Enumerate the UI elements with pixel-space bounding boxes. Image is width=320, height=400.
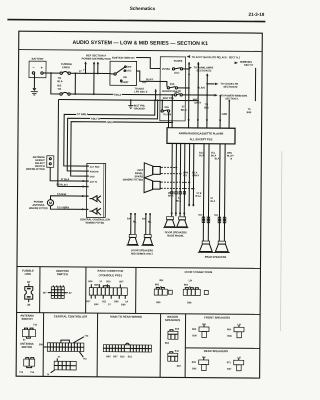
svg-text:JB: JB — [27, 304, 30, 307]
legend: central controller strip 2 — [47, 357, 77, 377]
svg-text:T/5 BLA/Y: T/5 BLA/Y — [56, 184, 68, 187]
svg-text:B/L: B/L — [148, 222, 152, 224]
speaker door mid LH — [141, 235, 153, 246]
wire arrow motor lower — [82, 208, 85, 210]
svg-text:30A: 30A — [170, 83, 175, 86]
title separator line — [19, 50, 262, 52]
svg-text:IGNITION SWITCH: IGNITION SWITCH — [112, 56, 135, 60]
legend: front LH connector — [234, 325, 244, 338]
svg-text:M: M — [49, 201, 52, 205]
svg-text:ILLUM: ILLUM — [163, 113, 171, 116]
svg-text:B15: B15 — [192, 362, 197, 364]
to parklamps arrow — [189, 66, 193, 69]
svg-text:Schematics: Schematics — [130, 6, 156, 11]
legend: fusible link symbol — [25, 284, 33, 303]
svg-text:57: 57 — [108, 304, 111, 306]
svg-text:MOTOR: MOTOR — [22, 345, 32, 349]
svg-text:716: 716 — [30, 372, 35, 374]
svg-text:OFF: OFF — [127, 66, 132, 69]
svg-text:MAIN TO REAR WIRING: MAIN TO REAR WIRING — [110, 315, 142, 319]
connector ticks door wires — [171, 204, 195, 215]
svg-text:B: B — [231, 158, 233, 160]
wire risers into radio — [187, 62, 230, 128]
legend: main to rear connector strip — [103, 343, 151, 352]
schematic border frame — [16, 31, 262, 378]
svg-text:BLA/Y: BLA/Y — [146, 78, 154, 81]
svg-text:BLA: BLA — [57, 80, 62, 83]
wire riser w/ arrow 3 — [93, 61, 96, 95]
svg-text:B10: B10 — [175, 329, 180, 331]
junction dots dashed — [175, 166, 195, 189]
svg-text:B08: B08 — [114, 301, 119, 303]
wire motor lower — [50, 206, 86, 209]
svg-text:DOOR CONNECTIONS: DOOR CONNECTIONS — [185, 270, 213, 274]
svg-text:AUDIO SYSTEM — LOW & MID SERIE: AUDIO SYSTEM — LOW & MID SERIES — SECTIO… — [72, 40, 208, 47]
svg-text:57: 57 — [211, 198, 214, 200]
wire switch to controller — [50, 167, 87, 181]
ignition switch — [110, 61, 137, 85]
wire nested loop 4 — [71, 122, 172, 177]
svg-text:ACC: ACC — [126, 69, 132, 72]
svg-text:TO ACCY BACKLITE RELAYS - SECT: TO ACCY BACKLITE RELAYS - SECT H.J — [192, 56, 241, 59]
svg-text:LPS SEC E: LPS SEC E — [134, 91, 147, 94]
legend: rear LH connector — [234, 358, 244, 371]
svg-text:MID SERIES ONLY: MID SERIES ONLY — [131, 253, 153, 256]
svg-text:74: 74 — [47, 373, 50, 376]
svg-text:FRONT SPEAKERS: FRONT SPEAKERS — [204, 315, 230, 319]
to cigar ltr arrow — [215, 83, 219, 86]
svg-text:B10: B10 — [198, 215, 203, 217]
svg-text:B11: B11 — [175, 351, 180, 353]
svg-text:B07: B07 — [113, 356, 118, 358]
svg-text:B05: B05 — [192, 329, 197, 331]
svg-text:B11: B11 — [214, 215, 219, 217]
svg-text:ON: ON — [123, 76, 127, 79]
legend: central controller 743 leader top — [73, 334, 89, 342]
svg-text:B06: B06 — [192, 368, 197, 370]
inst panel speakers label — [123, 169, 144, 182]
svg-text:YEL: YEL — [211, 153, 216, 155]
svg-text:BASE MODEL: BASE MODEL — [167, 235, 184, 238]
svg-text:SECTION M: SECTION M — [223, 86, 237, 89]
svg-text:T/5 B/W: T/5 B/W — [57, 193, 67, 196]
svg-text:B04: B04 — [165, 342, 170, 345]
svg-text:ALL EXCEPT PSS: ALL EXCEPT PSS — [190, 137, 213, 141]
svg-text:743: 743 — [83, 358, 88, 361]
svg-text:B/LG: B/LG — [181, 109, 187, 112]
svg-text:B/L: B/L — [133, 221, 137, 223]
svg-text:LINKS: LINKS — [62, 65, 70, 69]
svg-text:RH: RH — [159, 278, 163, 282]
svg-text:B04: B04 — [184, 284, 189, 287]
svg-text:GROUND: GROUND — [134, 107, 145, 110]
wire ign to fusebox top — [136, 58, 160, 69]
ground (battery) — [31, 74, 38, 95]
svg-text:T/5: T/5 — [57, 88, 61, 91]
wire risers backlite — [183, 62, 200, 70]
legend: radio connector body — [89, 284, 127, 299]
svg-text:REAR SPEAKERS: REAR SPEAKERS — [204, 349, 228, 353]
transistor Q2 — [92, 208, 97, 214]
svg-text:B09: B09 — [121, 304, 126, 306]
legend: radio connector pin labels top — [88, 280, 124, 287]
legend: antenna switch connector — [22, 328, 35, 338]
svg-text:B5B: B5B — [247, 112, 252, 114]
svg-text:SECT H: SECT H — [244, 64, 253, 67]
svg-text:B/LA: B/LA — [211, 154, 217, 157]
svg-text:B04: B04 — [227, 328, 232, 331]
svg-text:B09: B09 — [192, 335, 197, 337]
svg-text:T/BLY B: T/BLY B — [91, 118, 101, 121]
wire battery+ to fusible link — [43, 72, 59, 74]
wire motor upper — [50, 196, 86, 200]
legend: main to rear pin labels — [106, 356, 132, 358]
speaker inst panel LH — [144, 178, 161, 193]
svg-text:B71: B71 — [227, 362, 232, 364]
svg-text:Y: Y — [83, 70, 85, 72]
svg-text:R/DOOR: R/DOOR — [90, 171, 99, 173]
svg-text:WHERE FITTED: WHERE FITTED — [85, 222, 104, 225]
wire right drop — [254, 68, 256, 101]
wire arrow motor upper — [82, 195, 85, 197]
legend: central controller 743 leader bottom — [79, 352, 87, 361]
svg-text:B17: B17 — [86, 301, 91, 303]
svg-text:−: − — [32, 65, 35, 70]
svg-text:WHERE FITTED: WHERE FITTED — [29, 207, 48, 210]
battery — [29, 61, 46, 78]
svg-text:BLA: BLA — [176, 200, 181, 203]
svg-text:REAR SPEAKERS: REAR SPEAKERS — [205, 256, 227, 259]
svg-text:T/5 V/BRN: T/5 V/BRN — [57, 206, 69, 209]
svg-text:B/A: B/A — [142, 218, 146, 221]
svg-text:GRN/Y: GRN/Y — [192, 175, 200, 177]
svg-text:SWITCH: SWITCH — [22, 317, 33, 321]
to accy backlite arrow — [187, 55, 191, 58]
wire label T/BLA — [113, 93, 122, 96]
svg-text:YEL: YEL — [183, 175, 188, 177]
svg-text:BLU: BLU — [199, 152, 204, 154]
wires below radio — [171, 143, 225, 241]
svg-text:B10: B10 — [106, 281, 111, 283]
svg-text:57: 57 — [178, 198, 181, 200]
svg-text:BLA: BLA — [199, 154, 204, 157]
fuse ILLUM — [161, 99, 171, 127]
mirrors arrow — [235, 62, 239, 65]
speaker rear LH — [214, 241, 230, 253]
central controller — [86, 163, 105, 217]
junction battery branch — [50, 72, 52, 74]
svg-text:INST PNL: INST PNL — [163, 97, 175, 100]
svg-text:B05: B05 — [155, 284, 160, 286]
speaker door mid RH — [126, 234, 138, 245]
svg-text:B/LA: B/LA — [168, 195, 174, 198]
svg-text:BLA: BLA — [215, 157, 220, 160]
wire to cigar — [207, 83, 214, 85]
fusible link 2 — [60, 92, 70, 95]
fuse INST PNL — [163, 91, 215, 128]
speaker rear RH — [198, 241, 214, 253]
legend: rear RH connector — [199, 357, 209, 370]
svg-text:B10: B10 — [120, 356, 125, 358]
fuse panel — [160, 57, 186, 121]
svg-text:297: 297 — [43, 293, 48, 295]
wire branch down to second link — [51, 73, 60, 94]
wire riser to inst lps — [154, 89, 156, 101]
svg-text:ACC: ACC — [174, 72, 180, 75]
svg-text:LH: LH — [189, 278, 193, 282]
svg-text:SPEAKERS: SPEAKERS — [165, 318, 181, 322]
svg-text:17: 17 — [79, 70, 82, 73]
page edge shadow — [280, 151, 281, 331]
svg-text:B06: B06 — [106, 356, 111, 358]
svg-text:+: + — [41, 65, 44, 70]
antenna height select switch — [47, 156, 54, 168]
svg-text:( CONSOLE PSS ): ( CONSOLE PSS ) — [99, 273, 123, 277]
svg-text:B/B: B/B — [204, 106, 209, 109]
svg-text:B06: B06 — [88, 281, 93, 283]
legend: wagon connector 2 — [168, 351, 180, 362]
wires door speakers mid — [130, 213, 151, 235]
to power windows arrow — [214, 94, 218, 97]
wire riser w/ arrow 1 — [74, 72, 76, 95]
svg-text:FUSES: FUSES — [174, 59, 183, 63]
svg-text:57 B: 57 B — [197, 193, 202, 195]
wire label T/7 B/BLA — [76, 112, 88, 115]
svg-text:SECTION L: SECTION L — [225, 97, 239, 100]
legend: central controller strip 1 — [44, 340, 84, 352]
svg-text:743: 743 — [33, 323, 38, 326]
inline connectors front wires — [171, 192, 186, 195]
wire nested loop outer — [58, 100, 88, 187]
svg-text:14: 14 — [99, 280, 102, 283]
fusible link 1 — [60, 72, 70, 75]
svg-text:POWER DISTRIBUTION: POWER DISTRIBUTION — [82, 57, 111, 61]
svg-text:B/LA: B/LA — [196, 195, 202, 198]
wire labels mid speakers — [127, 217, 152, 223]
wire label GREY — [106, 121, 113, 124]
svg-text:LINK: LINK — [25, 272, 32, 276]
power antenna motor — [47, 200, 53, 206]
wire nested loop 2 — [64, 100, 155, 167]
svg-text:WHERE FITTED: WHERE FITTED — [26, 168, 45, 171]
svg-text:1A: 1A — [125, 300, 128, 303]
svg-text:57: 57 — [58, 357, 61, 359]
wire labels below radio — [168, 152, 234, 203]
svg-text:298: 298 — [39, 344, 44, 346]
svg-text:B/LA: B/LA — [192, 171, 198, 174]
fuse RADIO CIG LTR — [162, 83, 189, 93]
inline connectors rear wires — [202, 217, 226, 223]
svg-text:715: 715 — [19, 372, 24, 374]
svg-text:BLU/Y: BLU/Y — [227, 155, 234, 157]
ground inst pnl — [128, 99, 145, 110]
legend grid — [16, 267, 260, 378]
node motor pins — [87, 195, 89, 197]
svg-text:CENTRAL CONTROLLER: CENTRAL CONTROLLER — [54, 314, 88, 318]
wire riser w/ arrow 2 — [84, 61, 87, 74]
svg-text:B08: B08 — [227, 336, 232, 338]
svg-text:SWITCH: SWITCH — [57, 272, 68, 276]
legend: door LH connector — [183, 286, 208, 295]
svg-text:B/A: B/A — [127, 217, 131, 220]
legend: wagon connector 1 — [168, 329, 180, 340]
wire arrow 17bla — [83, 180, 86, 182]
legend: radio connector pin labels bottom — [86, 300, 128, 306]
svg-text:B09: B09 — [156, 302, 161, 304]
wire riser w/ arrow 4 — [97, 61, 100, 74]
svg-text:10A: 10A — [164, 106, 169, 109]
wire arrow t5blay — [83, 185, 86, 187]
svg-text:AM/FM RADIO/CASSETTE PLAYER: AM/FM RADIO/CASSETTE PLAYER — [179, 131, 224, 135]
svg-text:BATTERY: BATTERY — [32, 57, 44, 61]
dashed wires to inst speakers — [161, 167, 194, 188]
svg-text:20/15A: 20/15A — [162, 68, 170, 71]
svg-text:B05: B05 — [94, 285, 99, 287]
svg-text:B7: B7 — [69, 293, 73, 295]
legend: door RH connector — [154, 286, 172, 295]
svg-text:ACT RGE: ACT RGE — [90, 166, 100, 169]
svg-text:OFF: OFF — [142, 82, 147, 84]
svg-text:T/7 B/BLA: T/7 B/BLA — [77, 113, 89, 116]
wire label T/BLY B — [90, 117, 100, 120]
svg-text:7A: 7A — [248, 108, 251, 111]
legend: front RH connector — [199, 324, 209, 337]
svg-text:T/BLA: T/BLA — [114, 94, 122, 97]
svg-text:ANT HI: ANT HI — [90, 181, 98, 184]
svg-text:21-3-19: 21-3-19 — [249, 12, 265, 17]
radio cassette player U1 — [167, 128, 235, 144]
transistor Q1 — [92, 196, 97, 202]
speaker door base LH — [176, 217, 189, 228]
speaker door base RH — [163, 217, 176, 228]
svg-text:GRN: GRN — [183, 172, 188, 174]
svg-text:17 BLA: 17 BLA — [61, 178, 70, 181]
svg-text:743: 743 — [84, 335, 89, 338]
svg-text:B08: B08 — [187, 302, 192, 304]
wire link2 bottom run — [70, 93, 174, 96]
legend: ignition switch connector — [48, 285, 68, 298]
svg-text:GRN: GRN — [227, 153, 232, 155]
svg-text:GRN: GRN — [222, 113, 228, 116]
wire nested loop 3 — [67, 100, 157, 172]
legend: antenna motor connector — [24, 358, 35, 368]
svg-text:B11: B11 — [128, 356, 133, 358]
svg-text:BLA: BLA — [210, 200, 215, 203]
svg-text:GREY: GREY — [107, 121, 114, 124]
svg-text:B11: B11 — [102, 301, 107, 303]
svg-text:B07: B07 — [227, 369, 232, 371]
fuse ACC — [162, 68, 183, 75]
speaker inst panel RH — [144, 163, 161, 178]
svg-text:GND: GND — [90, 176, 95, 178]
svg-text:B07: B07 — [119, 281, 124, 283]
svg-text:B04: B04 — [94, 303, 99, 306]
header rule — [7, 20, 265, 22]
svg-text:BT: BT — [27, 281, 31, 284]
svg-text:SECTION E2: SECTION E2 — [197, 69, 212, 72]
svg-text:B07: B07 — [177, 366, 182, 368]
wire link1 to ignition switch — [70, 72, 110, 74]
wire ign acc output — [136, 71, 167, 87]
wire long accessory run — [58, 100, 198, 101]
svg-text:(WHERE FITTED): (WHERE FITTED) — [123, 178, 144, 181]
